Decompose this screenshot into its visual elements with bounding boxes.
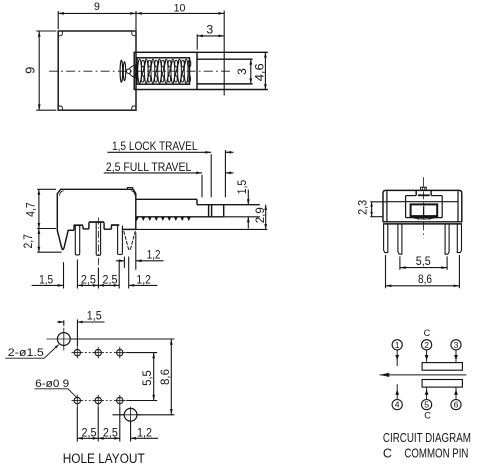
svg-text:2,7: 2,7 (22, 234, 35, 249)
svg-text:8,6: 8,6 (418, 272, 432, 286)
svg-text:C: C (424, 411, 431, 421)
svg-text:3: 3 (454, 340, 459, 350)
svg-text:C: C (424, 328, 431, 338)
svg-text:5,5: 5,5 (140, 370, 154, 386)
svg-text:2,9: 2,9 (253, 207, 267, 223)
svg-text:2: 2 (424, 340, 429, 350)
svg-text:2,5: 2,5 (103, 426, 118, 440)
svg-text:4,6: 4,6 (253, 63, 267, 81)
svg-text:1,5: 1,5 (87, 309, 102, 323)
svg-text:1,5 LOCK TRAVEL: 1,5 LOCK TRAVEL (112, 139, 198, 153)
svg-text:2,5: 2,5 (81, 273, 96, 287)
svg-text:2,3: 2,3 (355, 200, 369, 215)
svg-text:6: 6 (454, 400, 459, 410)
svg-text:1,2: 1,2 (137, 426, 152, 440)
svg-text:CIRCUIT DIAGRAM: CIRCUIT DIAGRAM (383, 431, 471, 445)
svg-text:10: 10 (174, 2, 186, 14)
svg-text:4: 4 (395, 400, 400, 410)
svg-text:8,6: 8,6 (158, 369, 172, 385)
svg-text:9: 9 (94, 1, 100, 13)
svg-text:5,5: 5,5 (416, 254, 431, 268)
svg-text:1,2: 1,2 (136, 273, 151, 287)
svg-text:2,5: 2,5 (103, 273, 118, 287)
svg-text:9: 9 (23, 67, 38, 74)
svg-text:C: C (383, 447, 392, 461)
svg-text:3: 3 (206, 23, 213, 37)
svg-text:3: 3 (235, 68, 249, 75)
svg-text:2,5: 2,5 (82, 426, 97, 440)
svg-text:1,2: 1,2 (147, 247, 161, 261)
svg-text:1,5: 1,5 (235, 179, 249, 194)
svg-text:4,7: 4,7 (24, 202, 37, 217)
svg-text:1,5: 1,5 (39, 273, 53, 287)
svg-text:6-ø0 9: 6-ø0 9 (35, 378, 69, 390)
svg-text:2,5 FULL TRAVEL: 2,5 FULL TRAVEL (106, 160, 192, 174)
svg-text:COMMON PIN: COMMON PIN (404, 447, 468, 461)
svg-text:1: 1 (395, 340, 400, 350)
svg-text:2-ø1.5: 2-ø1.5 (8, 347, 44, 359)
svg-text:HOLE LAYOUT: HOLE LAYOUT (63, 451, 145, 466)
svg-text:5: 5 (424, 400, 429, 410)
